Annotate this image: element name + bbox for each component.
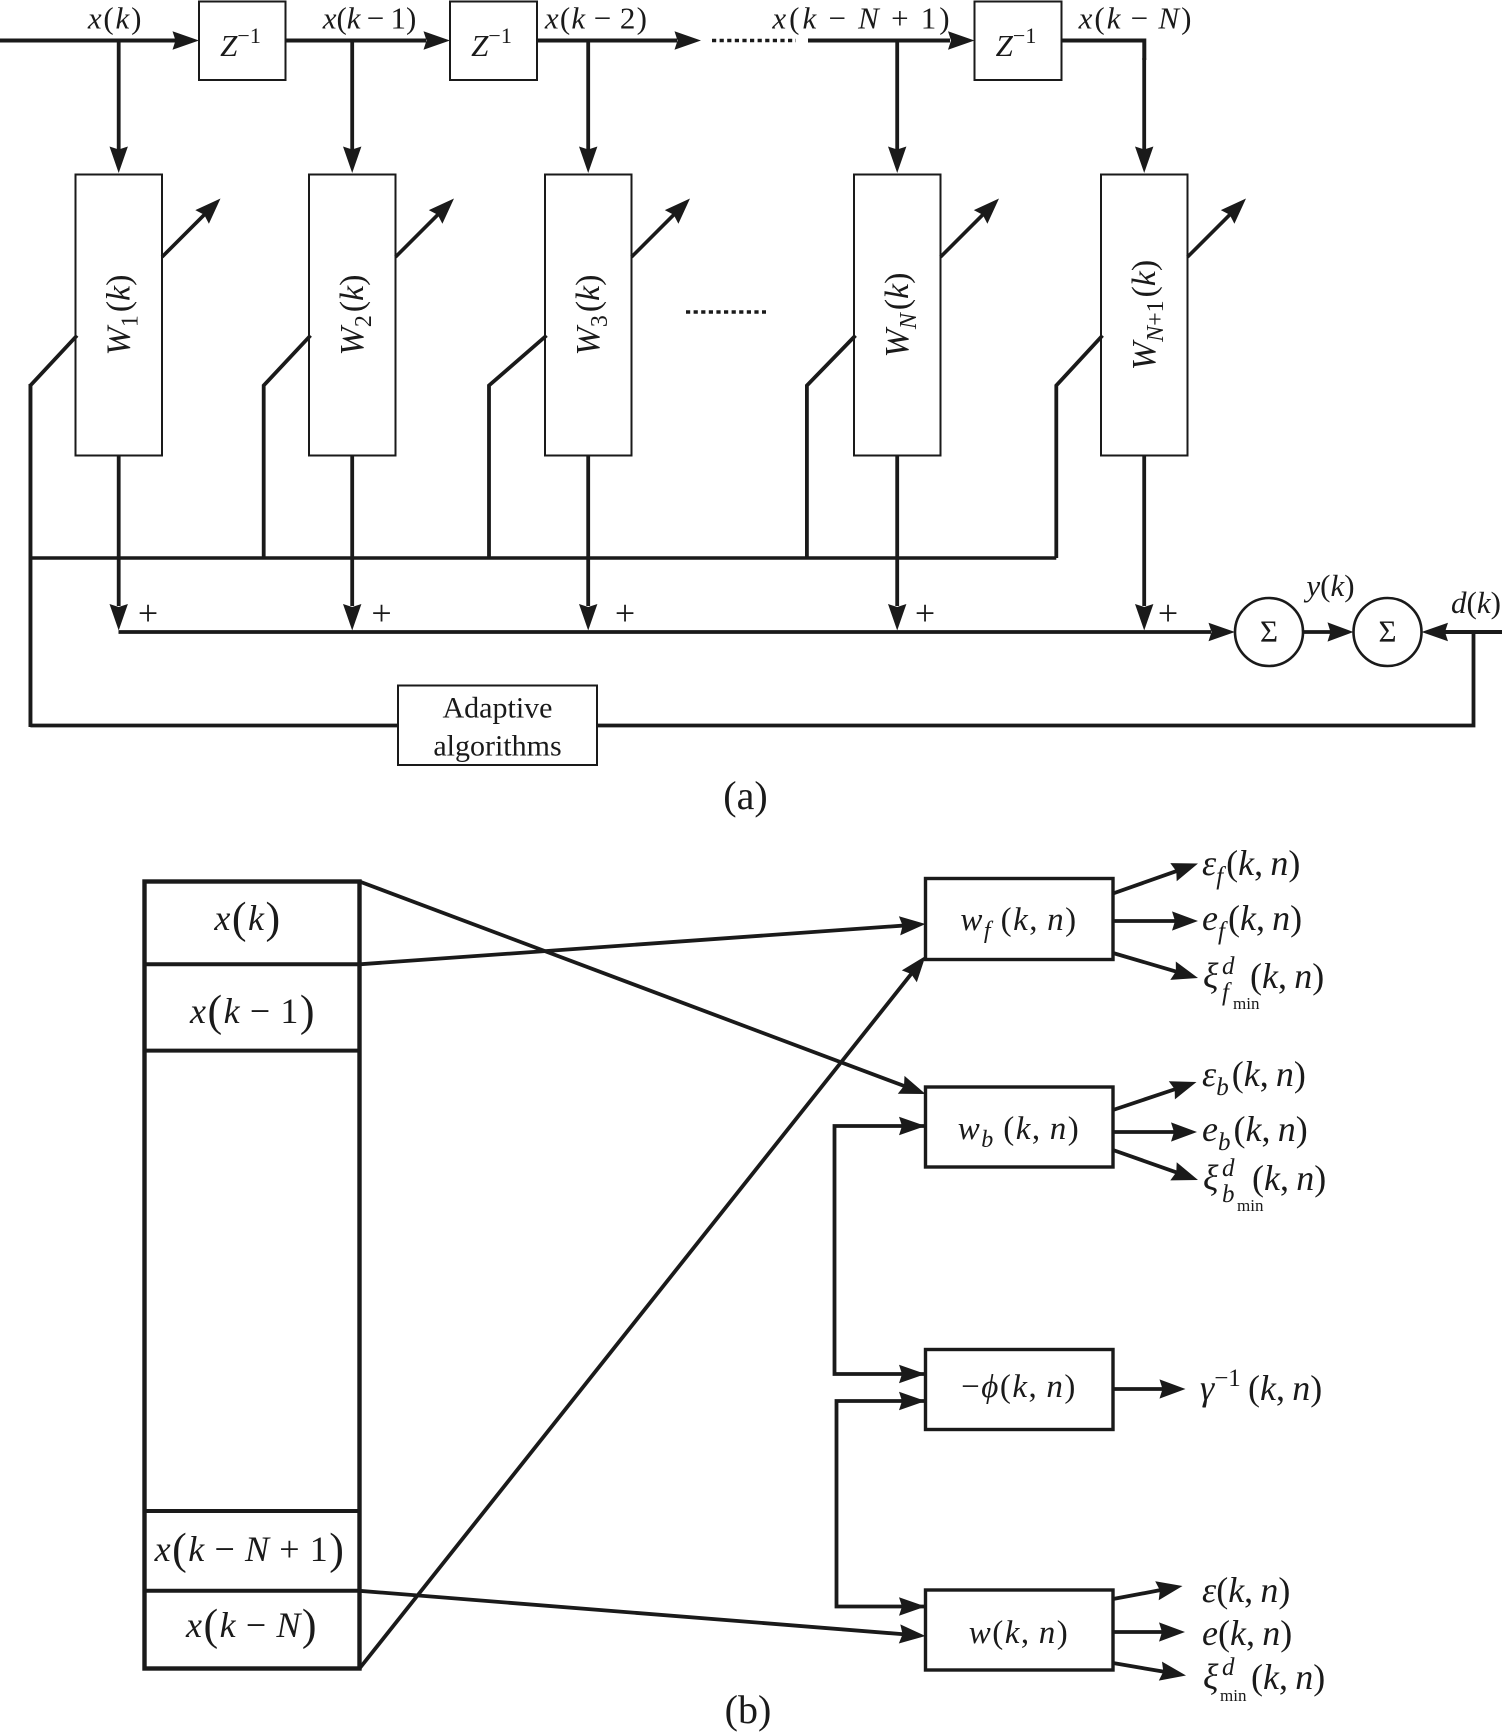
- arrow sum1 to sum2: [1303, 630, 1332, 634]
- svg-text:wb (k, n): wb (k, n): [958, 1111, 1081, 1153]
- svg-text:(k, n): (k, n): [1251, 1657, 1325, 1697]
- svg-text:Σ: Σ: [1378, 614, 1396, 649]
- stack divider 1: [147, 962, 358, 966]
- wire x(k-2): [537, 39, 677, 43]
- svg-text:−ϕ(k, n): −ϕ(k, n): [961, 1369, 1077, 1405]
- svg-text:W2 (k): W2 (k): [334, 275, 377, 356]
- output wire W3: [586, 456, 590, 607]
- stack divider 4: [147, 1589, 358, 1593]
- weight box WNp1(k): [1101, 175, 1188, 456]
- svg-text:x(​k − N + 1): x(​k − N + 1): [154, 1525, 346, 1574]
- arrow eb out: [1113, 1130, 1175, 1134]
- svg-text:e(k, n): e(k, n): [1202, 1613, 1292, 1653]
- svg-text:+: +: [1158, 593, 1178, 633]
- arrowhead into sum2: [1422, 623, 1449, 641]
- arrowhead to dots: [675, 31, 702, 49]
- arrowhead into sum1: [1209, 623, 1236, 641]
- error feedback wire left: [30, 724, 398, 728]
- output wire W1: [117, 456, 121, 607]
- svg-text:(k, n): (k, n): [1250, 956, 1324, 996]
- svg-text:W1 (k): W1 (k): [101, 275, 144, 356]
- weight box W3(k): [545, 175, 632, 456]
- svg-text:eb (k, n): eb (k, n): [1202, 1109, 1308, 1156]
- box wb(k,n): [926, 1087, 1114, 1167]
- stack divider 2: [147, 1049, 358, 1053]
- arrowhead W1 to sum bus: [110, 604, 128, 631]
- wire input x(k): [0, 39, 176, 43]
- svg-text:+: +: [915, 593, 935, 633]
- summing node sum2: [1354, 598, 1422, 666]
- arrow ef out: [1113, 919, 1176, 923]
- stack divider 3: [147, 1509, 358, 1513]
- box -phi(k,n): [926, 1350, 1114, 1430]
- arrowhead A into wb: [899, 1117, 926, 1135]
- summing node sum1: [1235, 598, 1303, 666]
- svg-text:min: min: [1237, 1196, 1264, 1215]
- arrowhead into Z1: [173, 31, 200, 49]
- ellipsis dashes middle: [686, 310, 766, 313]
- arrowhead into Z2: [424, 31, 451, 49]
- adjust arrow W1: [162, 214, 205, 257]
- svg-text:x(k − N + 1): x(k − N + 1): [771, 1, 952, 36]
- tap wire down to WNp1: [1142, 58, 1146, 150]
- svg-text:w(k, n): w(k, n): [969, 1615, 1070, 1651]
- tap wire down to WN: [895, 41, 899, 151]
- line stack-bottom to wf: [360, 973, 912, 1668]
- svg-text:algorithms: algorithms: [433, 730, 561, 763]
- line stack-div1 to wf: [360, 926, 904, 965]
- arrowhead into W2: [343, 147, 361, 174]
- tap wire down to W2: [350, 41, 354, 151]
- adaptive algorithms box: [398, 686, 597, 766]
- arrowhead A into -phi: [899, 1365, 926, 1383]
- arrowhead B into -phi: [899, 1392, 926, 1410]
- svg-text:(b): (b): [725, 1687, 772, 1732]
- arrowhead into WNp1: [1135, 147, 1153, 174]
- summation bus: [119, 630, 1212, 634]
- arrow eps out: [1113, 1590, 1161, 1599]
- line stack-div4 to w: [360, 1591, 904, 1634]
- svg-text:wf (k, n): wf (k, n): [960, 902, 1077, 944]
- svg-text:x(​k): x(​k): [213, 894, 281, 943]
- tap wire down to W3: [586, 41, 590, 151]
- output wire WN: [895, 456, 899, 607]
- svg-text:y(k): y(k): [1303, 568, 1354, 603]
- arrowhead into WN: [888, 147, 906, 174]
- error feedback wire right: [597, 632, 1474, 726]
- svg-text:min: min: [1233, 994, 1260, 1013]
- adjust arrow W2: [396, 214, 439, 257]
- arrow eb' out: [1113, 1089, 1176, 1110]
- output wire WNp1: [1142, 456, 1146, 607]
- tap wire down to W1: [117, 41, 121, 151]
- arrow ef' out: [1113, 871, 1177, 894]
- arrow xib out: [1113, 1150, 1177, 1173]
- svg-text:d: d: [1222, 953, 1235, 980]
- delay block Z2: [450, 2, 537, 81]
- arrowhead W2 to sum bus: [343, 604, 361, 631]
- svg-text:+: +: [615, 593, 635, 633]
- svg-text:W3 (k): W3 (k): [570, 275, 613, 356]
- arrow gamma out: [1113, 1387, 1164, 1391]
- feedback diagonal WNp1: [1056, 336, 1102, 559]
- ellipsis dashes top: [712, 39, 796, 42]
- adjust arrow W3: [632, 214, 675, 257]
- svg-text:d: d: [1222, 1155, 1235, 1182]
- svg-text:+: +: [371, 593, 391, 633]
- weight box W2(k): [309, 175, 396, 456]
- arrow xi out: [1113, 1663, 1164, 1672]
- wire x(k-1): [286, 39, 427, 43]
- weight-update bus: [30, 556, 1056, 559]
- box w(k,n): [926, 1590, 1114, 1670]
- feedback rise wire W1: [28, 384, 32, 727]
- feedback diagonal W1: [30, 336, 77, 726]
- svg-text:ξ: ξ: [1203, 956, 1219, 996]
- svg-text:x(k − 2): x(k − 2): [544, 1, 648, 36]
- input vector stack: [145, 882, 360, 1669]
- svg-text:d: d: [1222, 1654, 1235, 1681]
- svg-text:x(k): x(k): [87, 1, 143, 36]
- svg-text:min: min: [1220, 1686, 1247, 1705]
- connector B -phi/w: [837, 1401, 926, 1607]
- svg-text:ef (k, n): ef (k, n): [1202, 898, 1302, 945]
- arrowhead B into w: [899, 1597, 926, 1615]
- svg-text:ξ: ξ: [1203, 1158, 1219, 1198]
- arrow xif out: [1113, 953, 1177, 972]
- arrowhead into W1: [110, 147, 128, 174]
- feedback diagonal WN: [807, 336, 856, 559]
- svg-text:x(k − 1): x(k − 1): [322, 1, 417, 36]
- feedback diagonal W3: [489, 336, 547, 559]
- svg-text:(k, n): (k, n): [1252, 1158, 1326, 1198]
- svg-text:+: +: [138, 593, 158, 633]
- svg-text:Σ: Σ: [1260, 614, 1278, 649]
- arrowhead into W3: [579, 147, 597, 174]
- line stack-top to wb: [360, 882, 905, 1087]
- arrow e out: [1113, 1630, 1163, 1634]
- svg-text:d(k): d(k): [1451, 585, 1501, 620]
- svg-text:ε(k, n): ε(k, n): [1202, 1570, 1290, 1610]
- adjust arrow WN: [941, 214, 984, 257]
- wire x(k-N+1): [808, 39, 950, 43]
- arrowhead WN to sum bus: [888, 604, 906, 631]
- delay block Z1: [199, 2, 286, 81]
- adjust arrow WNp1: [1188, 214, 1231, 257]
- svg-text:ξ: ξ: [1203, 1657, 1219, 1697]
- box wf(k,n): [926, 879, 1114, 960]
- arrowhead W3 to sum bus: [579, 604, 597, 631]
- svg-text:b: b: [1222, 1181, 1235, 1208]
- wire x(k-N) elbow: [1062, 41, 1145, 61]
- svg-text:Adaptive: Adaptive: [443, 692, 553, 725]
- feedback diagonal W2: [264, 336, 311, 559]
- weight box W1(k): [76, 175, 163, 456]
- arrowhead into Z3: [948, 31, 975, 49]
- wire d(k) input: [1445, 630, 1502, 634]
- output wire W2: [350, 456, 354, 607]
- weight box WN(k): [854, 175, 941, 456]
- svg-text:x(​k − 1): x(​k − 1): [189, 987, 316, 1036]
- arrowhead WNp1 to sum bus: [1135, 604, 1153, 631]
- svg-text:x(​k − N): x(​k − N): [185, 1601, 318, 1650]
- svg-text:x(k − N): x(k − N): [1078, 1, 1194, 36]
- connector A wb/-phi: [835, 1126, 926, 1374]
- delay block Z3: [975, 2, 1062, 81]
- svg-text:(a): (a): [723, 773, 767, 818]
